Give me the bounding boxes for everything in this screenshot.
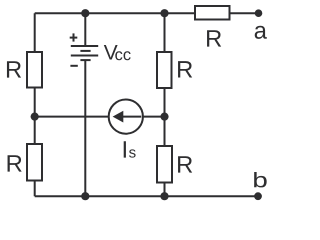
current source Is circle <box>109 100 143 134</box>
battery Vcc plates <box>71 46 98 60</box>
wire battery branch lower <box>84 60 86 196</box>
label R upper-left <box>7 61 21 77</box>
junction node right mid <box>160 113 168 121</box>
junction node left mid <box>31 113 39 121</box>
battery plus sign <box>70 33 78 41</box>
wire middle branch <box>35 116 165 118</box>
terminal b node <box>254 192 262 200</box>
current source arrow <box>113 111 142 123</box>
wire bottom rail <box>35 195 258 197</box>
junction node bottom right rail <box>160 192 168 200</box>
battery minus sign <box>70 65 77 67</box>
label R lower-left <box>8 155 22 171</box>
label Vcc <box>104 45 131 60</box>
terminal a node <box>255 9 263 17</box>
junction node top right rail <box>160 9 168 17</box>
label R lower-right <box>178 156 192 172</box>
label terminal b <box>254 172 267 187</box>
wire left rail <box>34 13 36 196</box>
wire battery branch upper <box>84 13 86 46</box>
resistor R lower-left <box>27 144 42 181</box>
junction node top battery <box>81 9 89 17</box>
label R top <box>207 30 221 46</box>
wire right rail <box>164 13 166 196</box>
junction node bottom battery <box>81 192 89 200</box>
label Is <box>124 141 136 157</box>
resistor R upper-right <box>157 52 172 88</box>
wire top rail <box>35 12 259 14</box>
label terminal a <box>255 26 267 39</box>
resistor R upper-left <box>27 52 42 88</box>
resistor R lower-right <box>157 146 172 183</box>
resistor R top horizontal <box>195 6 230 20</box>
label R upper-right <box>178 61 192 77</box>
